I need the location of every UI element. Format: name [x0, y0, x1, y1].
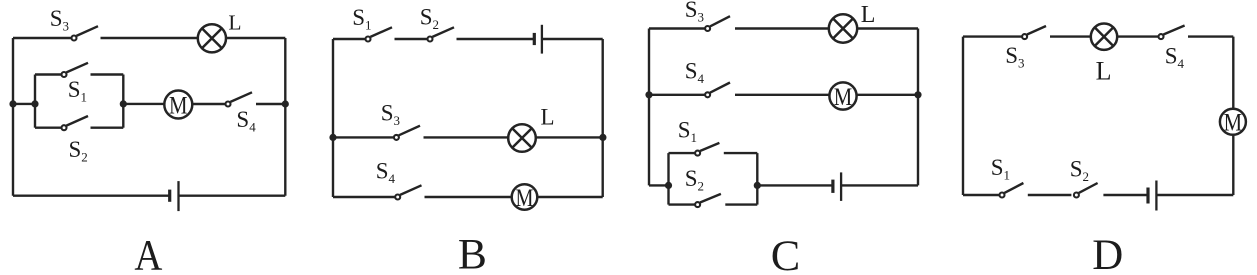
svg-text:M: M — [1224, 108, 1243, 137]
svg-text:S3: S3 — [381, 100, 400, 128]
svg-text:S4: S4 — [685, 59, 705, 87]
svg-text:S4: S4 — [1165, 44, 1185, 72]
svg-text:S2: S2 — [1070, 157, 1089, 185]
svg-text:S2: S2 — [685, 166, 704, 194]
svg-text:S1: S1 — [991, 155, 1010, 183]
svg-text:S1: S1 — [678, 117, 697, 145]
svg-text:S2: S2 — [420, 5, 439, 32]
svg-text:S3: S3 — [50, 6, 69, 34]
svg-text:S1: S1 — [68, 77, 87, 105]
svg-text:L: L — [228, 11, 241, 35]
svg-text:M: M — [169, 90, 188, 119]
svg-text:S3: S3 — [685, 0, 704, 24]
svg-text:D: D — [1092, 232, 1123, 275]
svg-text:A: A — [134, 233, 162, 275]
svg-text:M: M — [516, 183, 534, 212]
svg-text:S1: S1 — [352, 5, 371, 33]
svg-text:S2: S2 — [69, 137, 88, 165]
svg-text:S4: S4 — [376, 159, 396, 187]
svg-text:S4: S4 — [236, 107, 256, 135]
svg-text:L: L — [541, 104, 555, 129]
svg-text:M: M — [834, 82, 853, 111]
svg-text:L: L — [861, 2, 876, 28]
svg-text:C: C — [771, 233, 801, 275]
svg-text:S3: S3 — [1005, 43, 1024, 71]
svg-text:L: L — [1096, 57, 1112, 86]
svg-text:B: B — [458, 232, 487, 275]
